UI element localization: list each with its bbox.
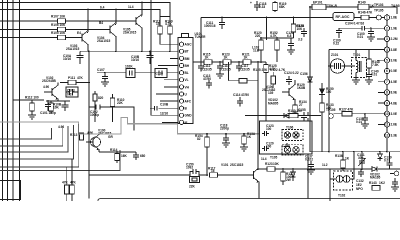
- diode VD101 on x310: [300, 72, 312, 82]
- svg-text:TP105: TP105: [374, 9, 384, 13]
- svg-text:68K: 68K: [279, 5, 286, 9]
- svg-text:R106 10K: R106 10K: [51, 23, 66, 27]
- IC pin 1: [384, 15, 397, 20]
- svg-text:2200p: 2200p: [220, 127, 229, 131]
- svg-text:3.3: 3.3: [298, 38, 303, 42]
- wire bottom rail y169: [330, 168, 400, 170]
- tuner pin 6: [179, 78, 188, 82]
- svg-text:0.5E: 0.5E: [391, 69, 398, 73]
- svg-text:139: 139: [268, 91, 274, 95]
- svg-text:3.3E: 3.3E: [391, 133, 398, 137]
- resistor R109B boxed: [125, 65, 135, 78]
- node row y62 b: [238, 61, 240, 63]
- node x310 y7: [309, 6, 311, 8]
- svg-text:AFC: AFC: [185, 100, 192, 104]
- tuner pin 8: [179, 92, 187, 97]
- ground under C107: [101, 82, 109, 86]
- wire pin5 line: [97, 72, 178, 74]
- wire T102 left to x330: [330, 178, 336, 180]
- svg-text:2SA1015: 2SA1015: [123, 31, 137, 35]
- transformer T101 dashed: [345, 50, 367, 80]
- svg-text:TUNER: TUNER: [195, 35, 207, 39]
- capacitor C132 1E2 NPO: [356, 169, 364, 191]
- capacitor C114 47/50: [233, 93, 249, 107]
- svg-text:T101: T101: [353, 53, 360, 57]
- capacitor C101 100p: [40, 100, 56, 115]
- node C141 bottom: [361, 168, 363, 170]
- wire T106 right vertical x308: [307, 112, 309, 198]
- svg-text:P111: P111: [68, 76, 75, 80]
- svg-text:2SC945B: 2SC945B: [42, 79, 57, 83]
- svg-text:R143: R143: [369, 181, 377, 185]
- wire x201 vertical: [200, 18, 202, 63]
- capacitor C100 0.01: [357, 28, 374, 39]
- wire top rail B with corner to R111: [0, 10, 160, 27]
- svg-text:100: 100: [266, 127, 272, 131]
- svg-text:4.96: 4.96: [58, 125, 64, 129]
- svg-text:8.9E: 8.9E: [391, 91, 398, 95]
- IC pin 2: [384, 26, 397, 31]
- node y49.6 x356: [355, 49, 357, 51]
- svg-text:0.01: 0.01: [371, 73, 377, 77]
- svg-text:22K: 22K: [117, 101, 124, 105]
- node VD103 top: [379, 151, 381, 153]
- svg-text:11: 11: [385, 123, 389, 127]
- svg-text:4.5E: 4.5E: [391, 80, 398, 84]
- svg-text:1L4: 1L4: [128, 5, 134, 9]
- capacitor C138: [392, 178, 398, 187]
- svg-text:V101: V101: [221, 163, 229, 167]
- svg-text:2: 2: [386, 26, 388, 30]
- svg-text:1K: 1K: [345, 157, 350, 161]
- node x207 on y175: [206, 174, 208, 176]
- svg-text:1L4: 1L4: [261, 157, 267, 161]
- svg-text:BM: BM: [185, 57, 190, 61]
- ground bottom right: [391, 187, 399, 191]
- svg-text:TP103: TP103: [374, 3, 384, 7]
- svg-text:10K: 10K: [273, 162, 280, 166]
- node row y62 a: [219, 61, 221, 63]
- svg-text:3.0E: 3.0E: [391, 112, 398, 116]
- svg-text:12/16: 12/16: [160, 112, 168, 116]
- svg-text:MA165: MA165: [370, 176, 381, 180]
- capacitor C130 0.01: [356, 113, 368, 124]
- wire T102 right to x354: [350, 152, 354, 179]
- resistor R111 47K: [60, 76, 89, 85]
- capacitor C140 0.01: [366, 70, 379, 81]
- diode VD102 MA165: [370, 167, 381, 180]
- resistor R152 4.7K: [270, 31, 279, 62]
- svg-text:82: 82: [197, 137, 201, 141]
- capacitor C112 0.22/35: [198, 62, 212, 72]
- wire C105 node line to tuner pin2: [80, 50, 178, 52]
- wire R120 cluster top rail: [261, 37, 294, 39]
- wire branch line 1: [0, 128, 52, 139]
- svg-text:1092: 1092: [186, 166, 193, 170]
- resistor R107 10K: [0, 15, 136, 24]
- svg-text:4.90: 4.90: [43, 85, 49, 89]
- svg-text:3.8E: 3.8E: [391, 48, 398, 52]
- svg-text:C101 100p: C101 100p: [40, 111, 56, 115]
- node C111 top: [221, 17, 223, 19]
- ground under R135: [240, 147, 248, 151]
- svg-text:3.0E: 3.0E: [391, 59, 398, 63]
- inductor L102: [252, 46, 260, 53]
- capacitor C137 0.022: [305, 155, 314, 171]
- wire pin6 stub: [164, 79, 178, 81]
- node R120 top: [260, 37, 262, 39]
- svg-text:VH: VH: [185, 85, 190, 89]
- svg-text:5: 5: [386, 59, 388, 63]
- tuner pin 12: [179, 120, 187, 125]
- transistor V100 2SC1815: [86, 129, 113, 153]
- svg-text:R149: R149: [358, 1, 366, 5]
- svg-text:47K: 47K: [62, 181, 69, 185]
- svg-text:47K: 47K: [77, 76, 84, 80]
- resistor R115 1K: [203, 53, 212, 65]
- wire vertical x330: [329, 169, 331, 201]
- svg-text:AGC: AGC: [185, 43, 193, 47]
- resistor R136 1K: [335, 152, 350, 171]
- wire bottom rail y151.7: [322, 151, 400, 153]
- svg-text:2.2M: 2.2M: [391, 37, 398, 41]
- svg-text:1K: 1K: [247, 135, 252, 139]
- IC pin 10: [384, 111, 397, 116]
- node x89 at R111: [88, 82, 90, 84]
- resistor R117 16: [208, 167, 218, 178]
- svg-text:C124 0.22: C124 0.22: [284, 71, 299, 75]
- wire line y107: [89, 107, 134, 131]
- svg-text:100: 100: [266, 145, 272, 149]
- svg-text:E4: E4: [77, 31, 81, 35]
- svg-text:1000p: 1000p: [90, 113, 99, 117]
- node C141 top: [361, 151, 363, 153]
- svg-text:0.22/35: 0.22/35: [201, 67, 212, 71]
- resistor R148 7.5K: [367, 50, 380, 74]
- crystal X101 parallel combo: [186, 163, 200, 189]
- transformer T106 dashed box: [282, 126, 303, 141]
- capacitor C110 1000 boxed: [155, 69, 167, 78]
- svg-text:R125 22K: R125 22K: [253, 68, 268, 72]
- svg-text:R146 47K: R146 47K: [358, 11, 373, 15]
- wire branch line 5: [0, 124, 79, 167]
- svg-text:10K: 10K: [53, 106, 60, 110]
- resistor R135 1K: [242, 132, 256, 147]
- svg-text:C107: C107: [97, 68, 105, 72]
- svg-text:+: +: [250, 1, 252, 5]
- svg-text:C125: C125: [296, 24, 304, 28]
- node R152 top: [276, 37, 278, 39]
- capacitor C120 100: [262, 142, 274, 152]
- wire pin9 stub: [378, 102, 384, 104]
- test point TP105b: [326, 108, 336, 118]
- node emitter V104 on rail B: [115, 9, 117, 11]
- tuner pin 3: [179, 56, 189, 60]
- svg-text:3: 3: [386, 37, 388, 41]
- wire IF bottom line y175: [89, 174, 250, 176]
- wire top rail A with corner to R109: [0, 3, 170, 27]
- svg-text:1: 1: [386, 16, 388, 20]
- svg-text:9: 9: [386, 101, 388, 105]
- svg-text:TA8690AN: TA8690AN: [391, 4, 400, 8]
- svg-text:EP101: EP101: [313, 1, 323, 5]
- resistor R149 1K: [358, 1, 375, 10]
- ceramic filter Z101: [329, 53, 345, 73]
- svg-text:1.9E: 1.9E: [391, 26, 398, 30]
- capacitor C107 0.01: [97, 68, 108, 82]
- node V101 collector: [257, 168, 259, 170]
- resistor R113 1K: [70, 133, 84, 140]
- svg-text:1K: 1K: [205, 55, 210, 59]
- resistor R10B 10K: [46, 101, 70, 114]
- wire pin7 stub: [378, 81, 384, 83]
- transistor V105 2SA1015: [123, 3, 143, 52]
- capacitor C121 6.8: [286, 31, 294, 50]
- wire long vertical x151: [151, 0, 178, 115]
- wire pin3 stub: [170, 57, 178, 59]
- resistor R154 82: [195, 134, 209, 175]
- node row y115.6 x258: [257, 115, 259, 117]
- svg-text:8: 8: [386, 91, 388, 95]
- svg-text:16K: 16K: [121, 154, 128, 158]
- wire left bus vertical 1: [2, 0, 4, 201]
- diode VD104: [291, 168, 296, 181]
- svg-text:T102: T102: [338, 194, 345, 198]
- resistor R106 10K: [0, 23, 110, 32]
- svg-text:16: 16: [211, 169, 215, 173]
- node on pin2 line at x170: [169, 50, 171, 52]
- svg-text:1LB: 1LB: [253, 49, 260, 53]
- svg-text:6.4: 6.4: [100, 6, 105, 10]
- capacitor C139 0.01: [384, 152, 393, 169]
- node gray path x220: [225, 133, 227, 135]
- IC pin 7: [384, 79, 397, 84]
- svg-text:0.22/35: 0.22/35: [220, 67, 231, 71]
- tuner pin 11: [179, 113, 192, 117]
- wire left bus vertical 4: [19, 0, 21, 201]
- capacitor C102 1000p: [90, 105, 100, 118]
- transformer T102 dashed: [334, 171, 353, 198]
- svg-text:7.5K: 7.5K: [372, 63, 379, 67]
- resistor R125 4.7K vertical: [264, 62, 277, 121]
- tuner pin 7: [179, 85, 189, 90]
- node gray path x244: [243, 133, 245, 135]
- IC pin 4: [384, 47, 397, 52]
- svg-text:C104 0.47/16: C104 0.47/16: [345, 22, 364, 26]
- svg-text:0.022: 0.022: [305, 158, 313, 162]
- wire vertical x310: [310, 7, 322, 152]
- node row y115.6 x295: [294, 115, 296, 117]
- node emitter V103 on rail B: [87, 9, 89, 11]
- node rail x354: [353, 151, 355, 153]
- svg-text:2.6E: 2.6E: [391, 123, 398, 127]
- capacitor C125 3.3 left of x310: [296, 24, 307, 42]
- svg-text:30p: 30p: [358, 156, 364, 160]
- wire bottom rail y198.4: [98, 198, 400, 201]
- svg-text:6: 6: [386, 69, 388, 73]
- svg-text:0.22/35: 0.22/35: [239, 67, 250, 71]
- node emitter V105 on rail A: [141, 2, 143, 4]
- transistor V101 2SC1815: [221, 157, 267, 198]
- resistor R123 1K: [222, 53, 231, 65]
- test point TP105: [374, 9, 384, 20]
- wire AGC row y115.6: [245, 115, 321, 117]
- svg-text:B4: B4: [99, 21, 103, 25]
- resistor R108 820 under V102: [93, 91, 104, 122]
- svg-text:102K: 102K: [125, 65, 133, 69]
- wire pin8 stub: [378, 91, 384, 93]
- transistor V104 2SA1015: [97, 10, 117, 52]
- node R122 top: [282, 168, 284, 170]
- tuner pin 10: [179, 106, 187, 111]
- svg-text:6.8: 6.8: [287, 34, 292, 38]
- wire highlighted IF path gray: [0, 118, 260, 135]
- node y49.6 x369: [368, 49, 370, 51]
- ground under C137: [307, 170, 315, 174]
- wire collector row y162 to right: [258, 168, 330, 170]
- svg-text:TDK-B: TDK-B: [327, 4, 338, 8]
- diode VD102 MA805: [268, 98, 289, 118]
- svg-text:R123: R123: [265, 162, 273, 166]
- trimmer capacitor C141 30p: [357, 152, 366, 169]
- tuner pin 5: [179, 71, 188, 76]
- node x89 on pin2 line: [88, 50, 90, 52]
- svg-text:2SA1015: 2SA1015: [97, 39, 111, 43]
- resistor R105 10K: [0, 31, 82, 40]
- node C10B top: [149, 50, 151, 52]
- resistor R134 27: [293, 100, 307, 116]
- IC pin 8: [384, 90, 397, 95]
- resistor R112 100: [25, 96, 39, 116]
- wire bottom left stub: [0, 181, 21, 200]
- node x329 Z101: [328, 65, 330, 67]
- capacitor C118 0.33: [250, 1, 267, 11]
- capacitor C136 160p: [133, 152, 146, 160]
- tuner pin 1: [179, 42, 192, 46]
- svg-text:0.01: 0.01: [356, 120, 362, 124]
- svg-text:12: 12: [385, 133, 389, 137]
- ground under C121: [287, 50, 295, 54]
- node C107 top: [104, 72, 106, 74]
- svg-text:47/50: 47/50: [203, 77, 211, 81]
- capacitor C10A 10/16: [63, 51, 84, 64]
- wire pin7 stub: [164, 86, 178, 88]
- wire vertical x329: [328, 50, 330, 152]
- wire vertical x89 to IF bottom line: [88, 107, 90, 198]
- svg-text:2SA1015: 2SA1015: [66, 47, 80, 51]
- wire pin5 stub: [377, 59, 384, 61]
- resistor R124 10K vertical: [291, 18, 304, 39]
- resistor R129 47K bottom: [70, 159, 77, 201]
- wire branch line 3: [0, 126, 68, 152]
- wire left bus vertical 2: [7, 0, 9, 201]
- resistor R126 22K cluster label: [253, 68, 299, 88]
- node C100 top: [370, 27, 372, 29]
- wire vertical x258: [257, 62, 259, 169]
- box SAW module outline: [260, 121, 313, 154]
- svg-text:BL: BL: [185, 71, 189, 75]
- wire left bus vertical 3: [12, 0, 14, 201]
- resistor R122 100 2W: [281, 169, 294, 185]
- svg-text:4.8E: 4.8E: [391, 101, 398, 105]
- svg-text:0.01: 0.01: [67, 93, 73, 97]
- capacitor C117 0.22/35: [236, 62, 250, 72]
- svg-text:TP105: TP105: [326, 108, 336, 112]
- transistor V103 2SA1015: [66, 10, 89, 52]
- capacitor C109 10/16 on pin10 line: [150, 103, 178, 116]
- node R124 top: [293, 17, 295, 19]
- capacitor C118 2200p: [220, 124, 229, 144]
- resistor R121 1K: [242, 53, 251, 65]
- svg-text:R113: R113: [70, 133, 78, 137]
- wire small branch y100 from bus: [13, 99, 44, 101]
- wire pin11 stub: [378, 124, 384, 126]
- svg-text:10/16: 10/16: [131, 58, 139, 62]
- svg-text:R107 10K: R107 10K: [51, 15, 66, 19]
- wire pin9 stub: [160, 100, 178, 102]
- wire IF line y17.5: [201, 17, 376, 19]
- wire row y62: [193, 61, 264, 63]
- capacitor C113 47/50: [203, 74, 212, 89]
- svg-text:T106: T106: [286, 126, 293, 130]
- label RF-AGC box: [333, 13, 354, 21]
- svg-text:1K2: 1K2: [379, 181, 385, 185]
- svg-text:4.7K: 4.7K: [270, 34, 277, 38]
- IC pin 12: [384, 133, 397, 138]
- svg-text:C10B: C10B: [160, 103, 169, 107]
- capacitor C103 0.01 boxed: [66, 87, 78, 97]
- resistor R116 row2: [229, 62, 259, 83]
- resistor R130 100: [288, 109, 308, 118]
- svg-text:220: 220: [255, 34, 261, 38]
- svg-text:RF-AGC: RF-AGC: [336, 15, 350, 19]
- svg-text:C110: C110: [156, 72, 164, 76]
- svg-text:BT: BT: [185, 50, 189, 54]
- resistor R114 16K: [110, 148, 128, 163]
- node on pin2 line at x116: [115, 50, 117, 52]
- IC pin 6: [384, 68, 397, 73]
- transformer T105 dashed: [270, 145, 303, 160]
- wire pin3 stub: [377, 38, 384, 40]
- svg-text:820: 820: [98, 96, 104, 100]
- node rail x387: [386, 151, 388, 153]
- ground under C130: [361, 124, 369, 128]
- diode VD103 small: [378, 152, 383, 161]
- tuner pin 9: [179, 99, 191, 104]
- wire pin4 stub: [158, 65, 178, 67]
- node row y62 c: [257, 61, 259, 63]
- transistor V106 2SC2482: [262, 80, 306, 104]
- wire jog R111 R109: [160, 15, 170, 17]
- svg-text:10/16: 10/16: [63, 57, 71, 61]
- svg-text:R112 100: R112 100: [25, 96, 39, 100]
- svg-text:2SC1815: 2SC1815: [230, 163, 244, 167]
- resistor R111 15 vertical: [153, 20, 178, 45]
- capacitor C10B 10/16 hanging: [131, 51, 154, 64]
- svg-text:C156: C156: [300, 72, 308, 76]
- resistor R128 47K bottom: [62, 167, 69, 201]
- svg-text:MA805: MA805: [268, 102, 279, 106]
- diode VD105: [319, 83, 334, 100]
- svg-text:GR: GR: [108, 135, 113, 139]
- svg-text:15: 15: [156, 22, 160, 26]
- node R114 top: [116, 151, 118, 153]
- svg-text:4.7K: 4.7K: [165, 22, 172, 26]
- resistor R119 68K: [273, 1, 287, 12]
- IC pin bus vertical: [386, 14, 388, 152]
- resistor R120 220: [254, 31, 263, 62]
- resistor R133 100: [320, 100, 334, 116]
